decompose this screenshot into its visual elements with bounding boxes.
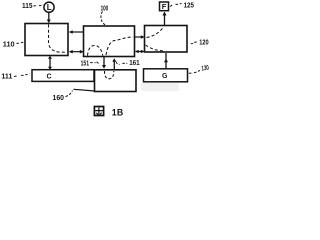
block 150 (middle box) bbox=[84, 26, 135, 57]
label 100 bbox=[101, 3, 109, 24]
dashed signal path inside left box bbox=[49, 25, 67, 53]
svg-text:120: 120 bbox=[199, 38, 208, 47]
svg-text:C: C bbox=[47, 74, 52, 81]
label 130 bbox=[189, 65, 210, 74]
wire: top connector left box - middle box (arrow left) bbox=[69, 30, 84, 34]
svg-text:160: 160 bbox=[53, 93, 65, 102]
svg-text:G: G bbox=[162, 73, 168, 80]
dashed path inside right box up to F bbox=[147, 27, 165, 38]
svg-text:1B: 1B bbox=[112, 107, 124, 117]
dashed arc 2 inside middle box bbox=[106, 37, 133, 55]
dashed U path inside bottom box bbox=[105, 71, 114, 79]
label 120 bbox=[191, 38, 209, 47]
flag box F bbox=[160, 2, 169, 11]
wire: double arrow left box - C box bbox=[48, 56, 52, 70]
block 120 (right box) bbox=[145, 26, 188, 53]
wire: arrow G box up to right box bbox=[164, 53, 168, 69]
block G bbox=[144, 69, 188, 82]
wire: arrow right box up to F bbox=[163, 12, 167, 26]
svg-text:125: 125 bbox=[184, 1, 194, 10]
svg-text:L: L bbox=[47, 3, 52, 12]
wire: down arrow middle box to bottom box (151) bbox=[102, 57, 106, 69]
wire: L to left block arrow down bbox=[47, 13, 51, 24]
label 160 bbox=[53, 89, 96, 102]
block 110 (left box) bbox=[25, 24, 68, 56]
svg-text:110: 110 bbox=[3, 40, 15, 49]
wire: top connector middle box - right box (arrow right) bbox=[135, 35, 145, 39]
wire: up arrow bottom box to middle box (161) bbox=[112, 58, 116, 69]
dashed path inside right box down to G bbox=[146, 45, 165, 51]
label 151 bbox=[81, 59, 99, 68]
svg-text:130: 130 bbox=[201, 65, 209, 73]
label 110 bbox=[3, 40, 25, 49]
svg-text:F: F bbox=[162, 2, 167, 11]
label 161 bbox=[116, 58, 139, 67]
scan smudge (decorative) bbox=[141, 83, 179, 91]
svg-text:100: 100 bbox=[101, 3, 109, 12]
caption 图 (drawn glyph) bbox=[94, 107, 103, 116]
svg-text:161: 161 bbox=[129, 58, 139, 67]
svg-text:111: 111 bbox=[1, 71, 12, 80]
block C bbox=[32, 70, 94, 82]
clock source circle L bbox=[44, 2, 54, 12]
label 111 bbox=[1, 71, 29, 80]
wire: bottom connector left box - middle box (double arrow) bbox=[69, 50, 84, 54]
wire: bottom connector middle box - right box (double arrow) bbox=[135, 50, 145, 54]
dashed arc 1 inside middle box bbox=[88, 45, 103, 55]
label 115 bbox=[22, 1, 43, 10]
svg-text:151: 151 bbox=[81, 59, 89, 68]
svg-text:115: 115 bbox=[22, 1, 33, 10]
label 125 bbox=[170, 1, 194, 10]
block 160 (bottom middle box) bbox=[95, 70, 137, 92]
